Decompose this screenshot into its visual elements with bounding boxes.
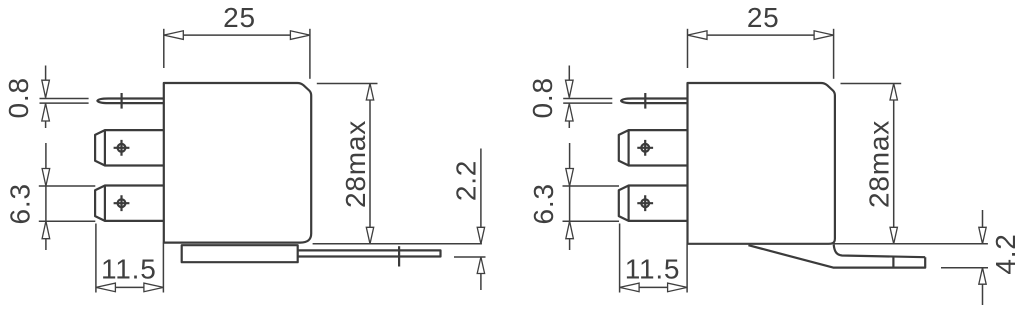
svg-text:25: 25 <box>223 2 256 33</box>
blade terminal 1 <box>619 130 688 165</box>
dimension 2.2 (tab offset) <box>451 149 486 291</box>
base flange plate (straight) <box>182 245 298 262</box>
dimension 28max (body height) <box>841 84 902 244</box>
svg-text:6.3: 6.3 <box>528 183 559 224</box>
blade terminal 2 <box>95 186 164 221</box>
dimension 0.8 (pin thickness) <box>3 66 88 129</box>
relay body outline (right view) <box>688 83 835 244</box>
dimension 6.3 (blade width) <box>5 143 96 250</box>
dimension 25 (right view) <box>688 2 834 79</box>
pin terminal (coil pin) <box>621 93 687 109</box>
dimension 11.5 (terminal length) <box>96 224 163 293</box>
svg-text:0.8: 0.8 <box>3 77 34 118</box>
svg-text:25: 25 <box>747 2 780 33</box>
dimension 28max (body height) <box>317 84 378 244</box>
dimension 6.3 (blade width) <box>528 143 619 250</box>
blade terminal 1 <box>95 130 164 165</box>
svg-text:28max: 28max <box>340 120 371 208</box>
seat plane line <box>688 243 988 245</box>
seat plane extension line <box>313 243 482 245</box>
dimension 0.8 (pin thickness) <box>527 66 612 129</box>
blade terminal 2 <box>619 186 688 221</box>
svg-text:2.2: 2.2 <box>451 160 482 201</box>
svg-text:11.5: 11.5 <box>101 254 157 285</box>
dimension 25 (left view) <box>164 2 310 79</box>
dimension 4.2 (bent tab offset) <box>941 210 1021 305</box>
svg-text:0.8: 0.8 <box>527 77 558 118</box>
relay body outline (left view) <box>164 83 311 243</box>
dimension 11.5 (terminal length) <box>620 224 688 293</box>
straight mounting tab <box>298 246 441 266</box>
svg-text:28max: 28max <box>864 120 895 208</box>
pin terminal (coil pin) <box>97 93 163 109</box>
bent mounting tab <box>748 245 925 268</box>
svg-text:4.2: 4.2 <box>990 233 1021 274</box>
svg-text:6.3: 6.3 <box>5 183 36 224</box>
svg-text:11.5: 11.5 <box>625 254 681 285</box>
